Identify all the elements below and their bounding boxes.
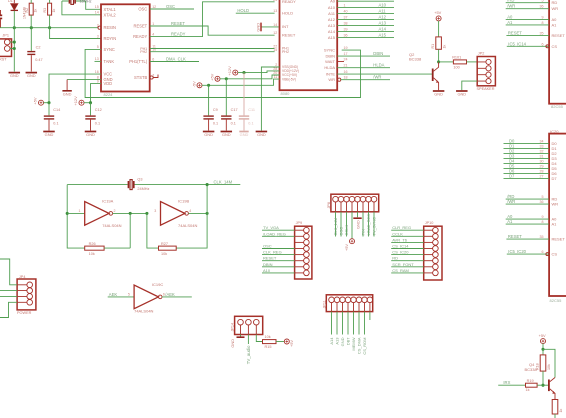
svg-text:A1: A1: [507, 20, 513, 25]
op-amp IC19B 74ALS04N: [161, 202, 185, 226]
svg-text:A1: A1: [507, 219, 513, 224]
pin stub WAIT: [337, 61, 344, 63]
svg-text:A13: A13: [335, 337, 340, 345]
svg-text:6: 6: [152, 57, 154, 61]
resistor R27: [159, 246, 177, 250]
svg-text:STSTB: STSTB: [134, 75, 147, 80]
wire IC19B output: [188, 212, 207, 214]
svg-text:CLK_14M: CLK_14M: [214, 180, 233, 185]
svg-text:HOLD: HOLD: [282, 10, 293, 15]
JP11 pin wires and rotated net labels: [331, 312, 333, 335]
supply +5V (CPU VCC): [215, 76, 220, 81]
svg-text:HOLD: HOLD: [237, 8, 249, 13]
diode D1: [13, 0, 15, 3]
svg-text:0.47: 0.47: [35, 58, 42, 62]
crystal Q1 18MHz: [62, 0, 86, 2]
svg-text:LOAD_REG: LOAD_REG: [366, 214, 371, 236]
net VSS to GND: [261, 67, 279, 131]
resistor R2: [29, 3, 33, 15]
svg-text:READY: READY: [133, 34, 147, 39]
svg-text:+5V: +5V: [209, 73, 214, 80]
capacitor C12: [90, 103, 92, 116]
svg-text:JP1: JP1: [2, 34, 9, 38]
svg-text:VBB(-5V): VBB(-5V): [282, 77, 296, 81]
capacitor C11 (faded): [243, 73, 245, 116]
svg-text:CS_ROM: CS_ROM: [362, 338, 367, 355]
capacitor C1 (clipped at left edge): [0, 15, 2, 17]
wire R26 right rail: [129, 213, 131, 248]
svg-text:D7: D7: [509, 174, 515, 179]
RESIN pin bubble: [98, 26, 101, 29]
junction osc out top: [206, 183, 209, 186]
op-amp IC19A 74ALS04N: [85, 202, 109, 226]
svg-text:74ALS04N: 74ALS04N: [102, 223, 121, 228]
svg-text:A10: A10: [263, 268, 271, 273]
net /WR with bubble: [338, 78, 341, 81]
wire crystal to XTAL2: [62, 1, 101, 15]
svg-text:XTAL1: XTAL1: [104, 7, 117, 12]
wire collector to R101: [439, 61, 454, 63]
svg-text:9: 9: [542, 16, 544, 20]
svg-text:10k: 10k: [89, 252, 95, 256]
svg-text:A1: A1: [552, 22, 558, 27]
svg-text:AEK: AEK: [109, 292, 118, 297]
svg-text:PH2: PH2: [140, 50, 147, 54]
svg-text:/RD: /RD: [507, 0, 514, 3]
svg-text:SPEAKER: SPEAKER: [477, 87, 495, 91]
net DBIN: [337, 55, 390, 57]
svg-text:+5V: +5V: [539, 333, 546, 338]
svg-text:DBIN: DBIN: [373, 51, 383, 56]
svg-text:JP2: JP2: [478, 52, 485, 56]
svg-text:TV_VGA: TV_VGA: [263, 225, 279, 230]
svg-text:RESET: RESET: [171, 21, 185, 26]
svg-text:JP8: JP8: [327, 202, 331, 209]
svg-text:SYNC: SYNC: [104, 47, 115, 52]
capacitor C9: [208, 85, 210, 115]
svg-text:JP10: JP10: [425, 221, 434, 225]
ground symbol (8224 GND pin): [67, 79, 101, 81]
svg-text:A11: A11: [328, 11, 336, 16]
svg-text:35: 35: [540, 32, 544, 36]
svg-text:RST: RST: [0, 57, 7, 61]
IC U4 8255 control pins with nets: [506, 198, 549, 200]
svg-text:R15: R15: [265, 345, 272, 349]
svg-text:6: 6: [542, 42, 544, 46]
svg-text:16: 16: [344, 70, 348, 74]
wire JP4 pin4: [0, 302, 17, 317]
wire crystal to XTAL1: [86, 1, 101, 9]
net HOLD: [236, 12, 275, 14]
svg-text:R27: R27: [161, 242, 168, 246]
svg-text:21: 21: [344, 64, 348, 68]
svg-text:A0: A0: [507, 15, 513, 20]
svg-text:C9: C9: [213, 108, 218, 112]
svg-text:17: 17: [344, 52, 348, 56]
wire +5V to Q4 collector: [543, 349, 555, 377]
wire JP4 pin3: [0, 295, 17, 297]
IC U3 8255 box (IC14): [549, 0, 566, 104]
svg-text:R3: R3: [43, 8, 47, 13]
svg-text:8: 8: [542, 220, 544, 224]
svg-text:+5V: +5V: [32, 97, 37, 104]
svg-text:MEMW: MEMW: [351, 337, 356, 350]
svg-text:GND: GND: [355, 220, 360, 229]
pin stub TANK: [95, 60, 102, 62]
svg-text:GND: GND: [240, 132, 249, 137]
svg-text:5: 5: [542, 195, 544, 199]
svg-text:IC5_IC14: IC5_IC14: [508, 41, 526, 46]
svg-text:Q3: Q3: [137, 178, 142, 182]
net /AEK: [162, 296, 192, 298]
net osc top right segment: [134, 184, 240, 186]
junction +5V/C17: [225, 77, 228, 80]
svg-text:CLK_REG: CLK_REG: [263, 250, 282, 255]
svg-text:0.1: 0.1: [248, 122, 253, 126]
svg-text:POWER: POWER: [17, 311, 32, 315]
junction R26 top: [129, 212, 132, 215]
resistor R101: [453, 60, 466, 64]
supply +12V (CPU VDD): [233, 70, 238, 75]
svg-text:100: 100: [453, 65, 459, 69]
svg-text:15: 15: [273, 48, 277, 52]
svg-text:A12: A12: [379, 15, 387, 20]
junction IC19B output/R27: [206, 212, 209, 215]
svg-text:CS: CS: [552, 252, 558, 257]
net DMA_CLK: [150, 61, 199, 63]
capacitor C17: [225, 79, 227, 116]
resistor R1: [436, 37, 442, 49]
svg-text:IC19C: IC19C: [152, 282, 163, 287]
junction +5V node Q4: [541, 348, 544, 351]
svg-text:RESET: RESET: [282, 32, 296, 37]
ground GND (JP2): [456, 90, 468, 92]
supply -5V (CPU VBB): [197, 83, 202, 88]
svg-text:C17: C17: [231, 108, 238, 112]
IC U2 8080 box: [280, 0, 338, 90]
net RESET 8224 to CPU: [150, 26, 275, 35]
svg-text:+5V: +5V: [434, 10, 441, 15]
svg-text:CS_RAM: CS_RAM: [392, 268, 409, 273]
svg-text:0.1: 0.1: [53, 122, 58, 126]
svg-text:+5V: +5V: [344, 244, 349, 251]
svg-text:36: 36: [540, 200, 544, 204]
svg-text:GND: GND: [86, 132, 95, 137]
svg-text:PIX: PIX: [361, 229, 366, 236]
svg-text:DBIN: DBIN: [263, 262, 273, 267]
svg-text:CCLK: CCLK: [344, 224, 349, 235]
net AEK: [108, 296, 134, 298]
ground GND (C11 faded): [239, 131, 248, 133]
svg-text:16: 16: [95, 70, 99, 74]
svg-text:12: 12: [273, 31, 277, 35]
STSTB pin bubble and stub: [150, 76, 153, 79]
svg-text:GND: GND: [204, 132, 213, 137]
svg-text:35: 35: [540, 235, 544, 239]
svg-text:0.1: 0.1: [231, 122, 236, 126]
op-amp none; IC U1 8224 box: [101, 4, 150, 91]
ground GND (C2 column): [26, 72, 38, 74]
svg-text:2: 2: [114, 209, 116, 213]
net SYNC long wire: [85, 49, 360, 97]
svg-text:AVR_T6: AVR_T6: [392, 237, 408, 242]
svg-text:RD: RD: [552, 0, 558, 5]
junction -5V/C9: [207, 84, 210, 87]
ground symbol (CPU INT pin): [261, 26, 279, 28]
svg-text:CS_IC20: CS_IC20: [392, 250, 409, 255]
junction osc input: [66, 212, 69, 215]
svg-text:DBIN: DBIN: [325, 54, 335, 59]
svg-text:+12V: +12V: [227, 66, 232, 76]
svg-text:A13: A13: [328, 23, 336, 28]
svg-text:WR: WR: [552, 6, 559, 11]
svg-text:0.1: 0.1: [213, 122, 218, 126]
svg-text:OSC: OSC: [263, 244, 272, 249]
svg-text:C12: C12: [95, 108, 102, 112]
wire JP14 pin3 to R15: [256, 335, 262, 342]
supply +5V (R15): [284, 339, 289, 344]
transistor Q2 BC338: [432, 69, 434, 82]
svg-text:4: 4: [189, 209, 191, 213]
svg-text:8224: 8224: [104, 92, 114, 97]
svg-text:10k: 10k: [161, 252, 167, 256]
svg-text:A10: A10: [328, 5, 336, 10]
svg-text:JP14: JP14: [231, 323, 235, 332]
wire osc right rail: [176, 185, 207, 249]
svg-text:10k: 10k: [265, 335, 271, 339]
svg-text:CS_DMA: CS_DMA: [357, 337, 362, 354]
svg-text:GND: GND: [10, 73, 19, 78]
svg-text:GND: GND: [340, 337, 345, 346]
svg-text:R2: R2: [25, 8, 29, 13]
ground GND (C14): [43, 131, 55, 133]
svg-text:36: 36: [344, 34, 348, 38]
svg-text:RESET: RESET: [263, 256, 277, 261]
svg-text:9: 9: [542, 215, 544, 219]
svg-text:SCR_FONT: SCR_FONT: [392, 262, 414, 267]
ground GND (JP8 pin5): [353, 217, 361, 219]
svg-text:GND: GND: [457, 92, 466, 97]
svg-text:A14: A14: [379, 27, 387, 32]
wire JP4 pin2: [0, 290, 17, 292]
svg-text:TV_SYNC: TV_SYNC: [372, 217, 377, 236]
svg-text:GND: GND: [222, 132, 231, 137]
resistor R3: [48, 3, 52, 15]
svg-text:PH2: PH2: [282, 50, 289, 54]
svg-text:74ALS04N: 74ALS04N: [178, 223, 197, 228]
svg-text:+12V: +12V: [73, 96, 78, 106]
svg-text:READY: READY: [171, 32, 186, 37]
svg-text:C2: C2: [36, 46, 41, 50]
junction Q2 collector node: [437, 60, 440, 63]
crystal Q3 24MHz: [128, 181, 130, 188]
junction +5V/C14: [47, 101, 50, 104]
net IRX: [498, 384, 525, 386]
junction Q4 base node: [541, 384, 544, 387]
svg-text:CLK_14M: CLK_14M: [333, 218, 338, 236]
svg-text:PH1(TTL): PH1(TTL): [129, 59, 148, 64]
junction reset/diode: [13, 26, 16, 29]
svg-text:14: 14: [273, 23, 277, 27]
svg-text:3: 3: [154, 209, 156, 213]
svg-text:A1: A1: [552, 222, 558, 227]
svg-text:VCC: VCC: [104, 72, 113, 77]
svg-text:19: 19: [344, 46, 348, 50]
svg-text:GND: GND: [257, 132, 266, 137]
svg-text:TANK: TANK: [104, 59, 115, 64]
svg-text:82C55: 82C55: [550, 298, 563, 303]
svg-text:GND: GND: [63, 92, 72, 97]
svg-text:32: 32: [540, 150, 544, 154]
svg-text:A10: A10: [379, 3, 387, 8]
svg-text:A12: A12: [328, 17, 336, 22]
net TV_audio (JP14 pin2): [247, 335, 249, 345]
ground GND (C12): [85, 131, 97, 133]
svg-text:GND: GND: [230, 339, 235, 348]
svg-text:A0: A0: [552, 17, 558, 22]
svg-text:A14: A14: [328, 29, 336, 34]
junction JP1 pin2: [13, 47, 16, 50]
wire R3 to RDYIN: [50, 15, 101, 38]
svg-text:1: 1: [79, 209, 81, 213]
net READY 8224 to CPU: [150, 2, 275, 37]
junction reset/R2: [30, 26, 33, 29]
svg-text:IC19B: IC19B: [178, 198, 189, 203]
IC U4 8255 data pins D0-D7: [504, 143, 549, 145]
svg-text:-5V: -5V: [191, 81, 196, 87]
junction +12V/C11: [242, 71, 245, 74]
svg-text:R101: R101: [452, 55, 461, 59]
svg-text:6: 6: [542, 250, 544, 254]
svg-text:RESIN: RESIN: [104, 25, 117, 30]
svg-text:5: 5: [128, 293, 130, 297]
svg-text:RD: RD: [392, 256, 398, 261]
wire VDD of 8224: [91, 84, 102, 103]
CS pin bubble IC20: [546, 253, 549, 256]
net HLDA: [337, 67, 390, 69]
svg-text:A9: A9: [330, 0, 336, 4]
svg-text:3: 3: [97, 34, 99, 38]
ground GND (C9): [203, 131, 215, 133]
svg-text:31: 31: [540, 155, 544, 159]
svg-text:82C55: 82C55: [551, 104, 564, 109]
supply +5V (Q2): [436, 16, 441, 21]
svg-text:IC5_IC20: IC5_IC20: [508, 249, 526, 254]
svg-text:/WR: /WR: [507, 4, 515, 9]
svg-text:13: 13: [273, 9, 277, 13]
svg-text:WAIT: WAIT: [325, 59, 335, 64]
svg-text:1k: 1k: [52, 9, 56, 13]
svg-text:DB7: DB7: [346, 337, 351, 346]
svg-text:8080: 8080: [281, 91, 291, 96]
net osc top left segment: [67, 184, 127, 186]
svg-text:D7: D7: [552, 176, 558, 181]
svg-text:37: 37: [344, 16, 348, 20]
svg-text:CS_IC14: CS_IC14: [392, 244, 409, 249]
svg-text:GND: GND: [27, 73, 36, 78]
svg-text:RDYIN: RDYIN: [104, 36, 117, 41]
svg-text:CS: CS: [552, 44, 558, 49]
connector JP10: [424, 226, 442, 280]
svg-text:HLDA: HLDA: [373, 63, 384, 68]
svg-text:+5V: +5V: [289, 340, 294, 347]
svg-text:JP9: JP9: [296, 221, 303, 225]
svg-text:JP4: JP4: [19, 275, 26, 279]
wire JP4 pin1: [0, 259, 17, 285]
JP8 pin wires and rotated net labels: [335, 212, 337, 237]
net OSC: [150, 8, 194, 10]
svg-text:A11: A11: [379, 9, 387, 14]
CS pin bubble IC14: [546, 45, 549, 48]
wire reset net horizontal: [0, 27, 98, 29]
svg-text:HLDA: HLDA: [324, 65, 335, 70]
svg-text:34: 34: [540, 140, 544, 144]
resistor R17 (emitter): [552, 400, 558, 415]
resistor R26: [85, 246, 104, 250]
svg-text:1: 1: [152, 22, 154, 26]
svg-text:40: 40: [344, 10, 348, 14]
junction JP1 pin1: [13, 41, 16, 44]
IC U3 8255 pins with nets: [506, 2, 549, 4]
svg-text:24: 24: [344, 58, 348, 62]
svg-text:RESET: RESET: [508, 234, 522, 239]
svg-text:R19: R19: [527, 379, 534, 383]
svg-text:VDD: VDD: [104, 81, 113, 86]
svg-text:1k: 1k: [34, 9, 38, 13]
svg-text:OSC: OSC: [339, 227, 344, 236]
svg-text:RESET: RESET: [552, 237, 566, 242]
svg-text:/WR: /WR: [507, 199, 515, 204]
svg-text:INT: INT: [282, 24, 289, 29]
IC U4 8255 box (IC20): [549, 134, 566, 296]
JP9 net wires and labels: [262, 229, 295, 231]
svg-text:WR: WR: [328, 77, 335, 82]
svg-text:OSC: OSC: [138, 6, 147, 11]
svg-text:R26: R26: [89, 242, 96, 246]
junction +12V/C12: [89, 101, 92, 104]
junction reset/R3: [48, 26, 51, 29]
svg-text:RESET: RESET: [134, 23, 148, 28]
ground GND (CPU VSS): [256, 131, 268, 133]
connector JP4 POWER: [17, 279, 36, 310]
svg-text:WR: WR: [552, 202, 559, 207]
svg-text:READY: READY: [282, 0, 296, 4]
svg-text:DMA_CLK: DMA_CLK: [166, 57, 186, 62]
svg-text:1: 1: [344, 4, 346, 8]
svg-text:A9: A9: [379, 0, 385, 1]
connector JP2 SPEAKER: [477, 57, 495, 86]
svg-text:BC338: BC338: [525, 367, 538, 372]
svg-text:CCLK: CCLK: [392, 231, 403, 236]
svg-text:8: 8: [542, 21, 544, 25]
svg-text:A14: A14: [329, 337, 334, 345]
svg-text:0.1: 0.1: [95, 122, 100, 126]
svg-text:A15: A15: [328, 35, 336, 40]
ground (JP14 pin1): [240, 335, 242, 337]
supply +12V (8224 VDD): [79, 100, 84, 105]
svg-text:1k: 1k: [559, 409, 563, 413]
svg-text:39: 39: [344, 28, 348, 32]
wire VCC of 8224: [49, 74, 101, 103]
svg-text:13: 13: [95, 57, 99, 61]
wire IC19A output: [113, 212, 147, 214]
svg-text:OSC: OSC: [166, 4, 175, 9]
ground GND (diode column): [9, 72, 20, 74]
svg-text:18: 18: [344, 76, 348, 80]
svg-text:GND: GND: [45, 132, 54, 137]
svg-text:BC338: BC338: [409, 57, 422, 62]
svg-text:1k: 1k: [526, 388, 530, 392]
